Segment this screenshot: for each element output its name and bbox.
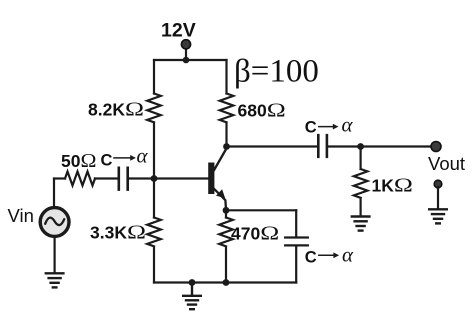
svg-text:C: C [305,119,317,137]
wire: 12V stub [185,46,187,60]
transistor Q1 emitter arrow [216,189,225,198]
wire: top supply bus [154,59,227,61]
svg-text:3.3KΩ: 3.3KΩ [90,222,146,244]
wire: 50 ohm to input cap [95,177,118,179]
svg-text:470Ω: 470Ω [231,223,279,245]
capacitor C3 bypass plates [285,236,308,238]
svg-text:Vout: Vout [428,153,465,174]
node: collector junction [223,143,230,150]
wire: collector to output cap [227,145,318,147]
wire: 680 bottom to collector node [225,123,227,147]
svg-text:α: α [342,113,354,137]
svg-text:1KΩ: 1KΩ [372,175,413,197]
resistor R3 680Ω [220,94,234,123]
wire: bypass cap top stub [295,210,297,236]
wire: base wire [154,177,208,179]
wire: input corner to 50 ohm [54,177,65,179]
wire: 8.2K bottom to base node [153,123,155,179]
svg-text:C: C [305,248,317,266]
12V supply terminal [181,40,190,49]
node: ground junction left [189,279,196,286]
wire: Vout ground stub [437,187,439,209]
svg-text:Vin: Vin [8,205,34,226]
wire: emitter node to bypass cap [226,209,296,211]
node: emitter junction [223,207,230,214]
resistor R4 470Ω [219,218,233,247]
svg-text:β=100: β=100 [234,54,319,90]
svg-text:α: α [342,243,354,267]
wire: 3.3K bottom to ground bus [153,248,155,283]
transistor Q1 collector lead [214,148,227,171]
wire: Vcc to 680 top [225,60,227,94]
resistor R6 50Ω [65,172,95,186]
svg-text:50Ω: 50Ω [61,150,96,172]
transistor Q1 base bar [208,163,214,195]
svg-text:C: C [101,151,113,169]
wire: input corner down to source [53,179,55,208]
arrow: input C to alpha [114,157,131,159]
Vout output terminal [431,142,441,152]
capacitor C2 output coupling plates [317,135,320,157]
ground: input source ground [46,273,64,287]
wire: emitter to 470 top [225,209,227,218]
node: output junction [357,143,364,150]
wire: base node to 3.3K top [153,179,155,218]
source V1 Vin sine source [40,208,69,237]
node: Vcc junction [183,57,190,64]
capacitor C1 input coupling plates [118,168,121,190]
wire: output cap to Vout [328,145,436,147]
wire: output node to 1K [360,147,362,170]
svg-text:12V: 12V [161,20,196,42]
svg-text:680Ω: 680Ω [238,99,286,121]
resistor R1 8.2KΩ [147,94,161,123]
wire: input cap to base node [129,177,154,179]
resistor R5 1KΩ [354,169,368,198]
node: ground junction emitter leg [223,279,230,286]
wire: ground bus [154,281,296,283]
wire: 1K to ground [360,198,362,216]
ground: Vout reference ground [429,209,447,223]
ground: 1K load ground [352,217,370,231]
resistor R2 3.3KΩ [147,218,161,247]
arrow: bypass C to alpha [319,254,334,256]
svg-text:8.2KΩ: 8.2KΩ [88,99,144,121]
svg-text:α: α [137,144,149,168]
wire: bypass cap bottom stub [295,247,297,283]
transistor Q1 emitter lead [214,189,226,210]
ground: main circuit ground [183,283,201,310]
wire: Vcc to 8.2K top [153,60,155,94]
wire: 470 bottom to ground bus [225,248,227,283]
node: base bias junction [151,175,158,182]
arrow: output C to alpha [319,126,334,128]
Vout ground terminal [434,180,442,188]
wire: source to ground [53,237,55,273]
